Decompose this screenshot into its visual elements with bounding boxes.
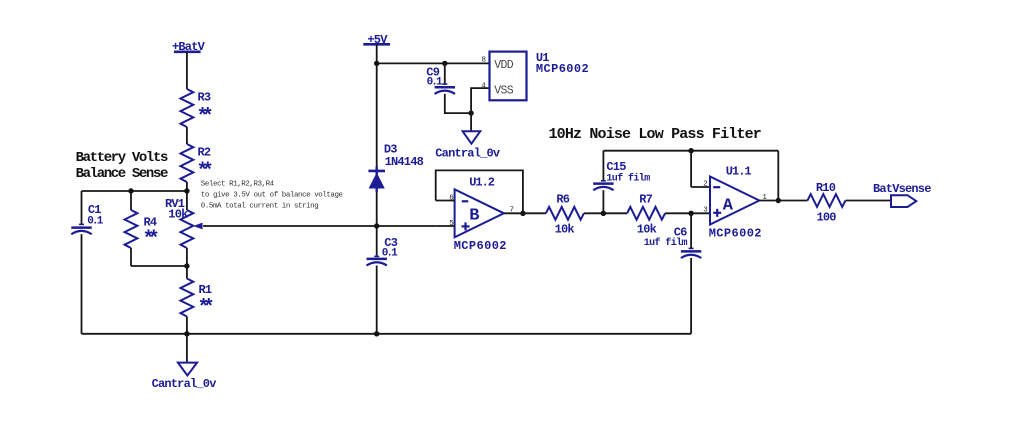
wire U1.2 feedback (436, 170, 523, 213)
svg-text:MCP6002: MCP6002 (709, 227, 762, 241)
power +5V (363, 33, 390, 47)
wire C1 top lead (81, 191, 83, 225)
resistor R1 (180, 279, 212, 320)
junction (184, 263, 189, 268)
op-amp U1.2 (449, 176, 514, 253)
svg-text:10k: 10k (637, 223, 657, 237)
svg-text:R7: R7 (639, 192, 652, 206)
IC U1 MCP6002 power box (481, 51, 589, 100)
wire C9 bottom lead (445, 94, 471, 113)
wire R6 to R7 (584, 212, 627, 214)
svg-text:1N4148: 1N4148 (385, 155, 424, 169)
junction (184, 188, 189, 193)
svg-text:0.1: 0.1 (382, 247, 398, 259)
wire +BatV to R3 (186, 52, 188, 89)
wire R2 to RV1 (186, 182, 188, 210)
junction (184, 331, 189, 336)
RV1 wiper arrow (193, 223, 202, 230)
wire C6 top lead (690, 213, 692, 248)
junction (688, 148, 693, 153)
svg-text:1uf film: 1uf film (606, 172, 650, 184)
svg-text:R3: R3 (198, 91, 211, 105)
junction (601, 211, 606, 216)
wire R3 to R2 (186, 127, 188, 144)
svg-text:U1.2: U1.2 (469, 176, 495, 190)
wire R7 to U1.1 pin3 (665, 212, 710, 214)
svg-text:10k: 10k (555, 223, 575, 237)
wire +5V rail to U1 VDD (377, 62, 490, 64)
junction (374, 223, 379, 228)
potentiometer RV1 (165, 197, 203, 248)
svg-text:U1.1: U1.1 (726, 165, 752, 179)
resistor R7 (627, 192, 665, 236)
svg-text:C15: C15 (606, 160, 626, 174)
wire wiper net (203, 225, 436, 227)
svg-text:10Hz Noise Low Pass Filter: 10Hz Noise Low Pass Filter (549, 126, 761, 143)
capacitor C15 (593, 160, 650, 190)
svg-text:R10: R10 (816, 181, 836, 195)
capacitor C6 (644, 225, 702, 258)
junction (468, 110, 473, 115)
wire wiper net to C3 (376, 226, 378, 256)
wire C15 top lead (602, 151, 604, 181)
wire C3 bottom lead (376, 266, 378, 334)
wire R1 bottom lead (186, 317, 188, 334)
svg-text:1uf film: 1uf film (644, 237, 688, 249)
junction (776, 198, 781, 203)
wire ground stub (186, 334, 188, 363)
svg-text:VDD: VDD (494, 59, 513, 72)
svg-text:0.1: 0.1 (87, 215, 103, 227)
svg-text:Cantral_0v: Cantral_0v (152, 377, 217, 391)
svg-text:MCP6002: MCP6002 (454, 239, 507, 253)
svg-text:to give 3.5V out of balance vo: to give 3.5V out of balance voltage (201, 192, 343, 200)
junction (128, 188, 133, 193)
wire rail down to output (777, 151, 779, 201)
wire R4 to RV1 bottom (131, 265, 187, 267)
wire U1.2 pin6 (436, 200, 455, 202)
junction (374, 331, 379, 336)
junction (374, 61, 379, 66)
wire +5V down to D3 (376, 63, 378, 166)
resistor R10 (808, 181, 846, 225)
op-amp U1.1 (703, 165, 767, 241)
resistor R3 (180, 89, 211, 129)
capacitor C1 (71, 203, 103, 234)
svg-text:Cantral_0v: Cantral_0v (435, 146, 500, 160)
svg-text:R1: R1 (199, 283, 212, 297)
note text (201, 181, 343, 211)
svg-text:BatVsense: BatVsense (873, 182, 931, 196)
wire C6 bottom lead (690, 258, 692, 334)
svg-text:+BatV: +BatV (172, 40, 206, 54)
wire R4 top lead (130, 191, 132, 210)
wire U1.2 output (504, 212, 546, 214)
resistor R6 (546, 192, 584, 236)
ground Cantral_0v (152, 363, 217, 391)
capacitor C9 (426, 65, 455, 94)
wire U1.2 pin5 (436, 225, 455, 227)
svg-text:MCP6002: MCP6002 (536, 62, 589, 76)
svg-text:R2: R2 (198, 146, 211, 160)
svg-text:3: 3 (703, 207, 708, 215)
resistor R4 (125, 210, 158, 251)
wire top horizontal (82, 190, 187, 192)
wire pin2 drop (690, 151, 692, 187)
svg-text:0.1: 0.1 (427, 77, 443, 89)
D3 anode triangle (369, 173, 385, 189)
wire U1.1 output (759, 200, 807, 202)
wire D3 to wiper net (376, 192, 378, 226)
svg-text:R6: R6 (556, 192, 569, 206)
svg-text:2: 2 (703, 181, 708, 189)
svg-text:A: A (723, 197, 734, 216)
svg-text:8: 8 (481, 57, 486, 65)
wire ground rail (82, 333, 692, 335)
power +BatV (172, 40, 206, 54)
svg-text:4: 4 (481, 82, 486, 90)
svg-text:B: B (469, 207, 479, 226)
wire U1 VSS to ground (471, 88, 489, 131)
wire R10 to connector (846, 200, 892, 202)
capacitor C3 (367, 236, 399, 265)
svg-text:Select R1,R2,R3,R4: Select R1,R2,R3,R4 (201, 181, 275, 189)
wire R4 bottom lead (130, 248, 132, 266)
svg-text:Balance Sense: Balance Sense (76, 166, 168, 182)
ground Cantral_0v under U1 (435, 131, 500, 160)
title Battery Volts Balance Sense (76, 150, 168, 182)
wire C15 bottom lead (602, 190, 604, 213)
svg-text:Battery Volts: Battery Volts (76, 150, 168, 166)
wire C1 bottom lead (81, 234, 83, 334)
wire top feedback rail (603, 150, 778, 152)
junction (520, 211, 525, 216)
wire C9 top lead (444, 63, 446, 84)
resistor R2 (180, 144, 211, 184)
diode D3 1N4148 (368, 143, 423, 192)
connector BatVsense (873, 182, 931, 207)
svg-text:+5V: +5V (367, 33, 388, 47)
wire U1.1 pin2 (691, 186, 710, 188)
wire +5V to junction (376, 44, 378, 63)
junction (442, 61, 447, 66)
svg-text:0.5mA total current in string: 0.5mA total current in string (201, 203, 318, 211)
svg-text:10k: 10k (168, 208, 188, 222)
wire RV1 to R1 (186, 248, 188, 279)
junction (688, 211, 693, 216)
svg-text:100: 100 (817, 211, 837, 225)
svg-text:VSS: VSS (494, 85, 513, 98)
